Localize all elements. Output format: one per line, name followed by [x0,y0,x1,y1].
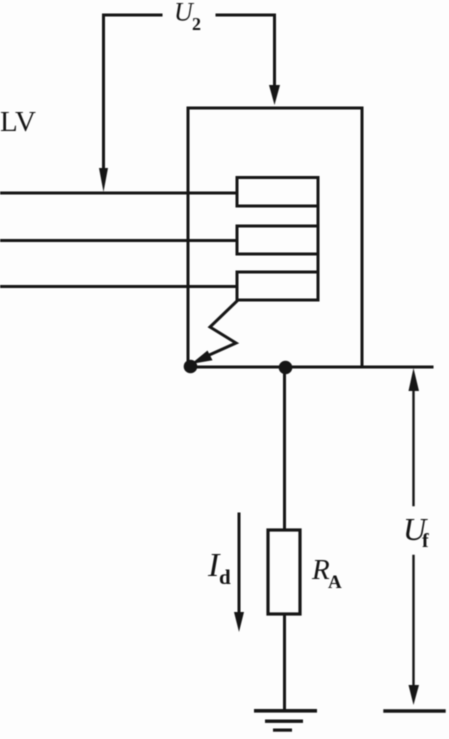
arrowhead tap selector [191,351,213,365]
wire U2 pointer left vertical [102,15,105,170]
arrowhead U2 to phase wire [99,168,108,192]
wire LV phase 1 [0,192,237,195]
arrowhead Uf down [409,685,420,705]
arrowhead Uf up [409,368,420,391]
arrowhead U2 to box top [269,85,280,105]
tap-changer enclosure box left [187,108,190,367]
label Id [207,547,231,589]
label Uf [403,511,429,552]
wire U2 pointer top horizontal left segment [104,14,162,17]
wire tap selector zigzag [207,300,238,356]
svg-text:d: d [219,565,231,589]
wire output bus bottom [188,366,432,369]
label RA [311,554,342,593]
arrowhead Id [234,612,244,632]
wire Id current arrow line [238,514,241,613]
ground symbol [254,709,317,732]
wire resistor branch upper [283,367,286,530]
tap contact segment 3 [237,272,318,300]
node junction dot left [184,360,198,374]
svg-text:2: 2 [192,14,201,34]
wire LV phase 3 [0,285,237,288]
node junction dot resistor branch [279,361,293,375]
svg-text:f: f [422,530,429,552]
wire Uf dimension lower [412,556,414,686]
resistor RA body [268,530,300,614]
label U2 [174,0,201,34]
tap contact segment 2 [237,226,318,254]
svg-text:A: A [328,572,342,593]
wire LV phase 2 [0,239,237,242]
svg-text:LV: LV [0,106,36,138]
tap contact segment 1 [237,178,318,207]
wire resistor branch lower [283,614,286,710]
tap-changer enclosure box top [188,107,362,110]
wire Uf dimension upper [412,390,414,505]
wire U2 pointer top horizontal right segment [217,14,275,17]
wire tap right bus [317,178,320,301]
wire Uf reference line bottom [385,709,444,712]
tap-changer enclosure box right [361,108,364,367]
wire U2 pointer right vertical [273,15,276,86]
